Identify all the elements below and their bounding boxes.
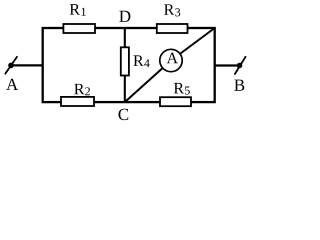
resistor R5	[160, 97, 191, 106]
resistor R2	[61, 97, 94, 106]
terminal B slash	[235, 56, 246, 74]
label R4	[133, 55, 143, 65]
wire diagonal C to ammeter	[125, 61, 171, 103]
label R2	[74, 84, 84, 94]
terminal B dot	[237, 63, 243, 69]
resistor R1	[63, 24, 95, 33]
node A label	[6, 79, 18, 90]
resistor R3	[157, 24, 188, 33]
label R3	[164, 4, 174, 14]
label R5	[174, 83, 184, 93]
terminal A wire	[11, 64, 43, 66]
wire outer rectangle loop	[43, 28, 215, 102]
wire diagonal ammeter to top-right corner	[171, 28, 215, 61]
resistor R4	[121, 47, 129, 75]
node D label	[119, 11, 130, 22]
node C label	[119, 109, 129, 120]
terminal B wire	[215, 64, 240, 66]
label R1	[70, 4, 80, 14]
terminal A dot	[8, 63, 14, 69]
ammeter A meter circle	[160, 49, 182, 71]
terminal A slash	[5, 56, 18, 74]
node B label	[234, 80, 244, 91]
wire middle vertical branch D to C	[124, 28, 126, 102]
